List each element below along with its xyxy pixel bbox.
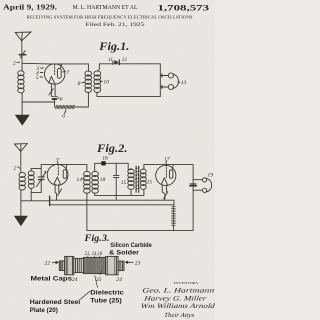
svg-text:8: 8 (78, 81, 81, 87)
headband fig2 (206, 178, 211, 192)
V1 filament (49, 77, 55, 84)
right metal cap 24 (106, 256, 119, 274)
grid tap wire (40, 164, 42, 168)
antenna wire (20, 151, 22, 172)
transformer primary coil 8 (85, 71, 92, 93)
svg-text:12: 12 (122, 57, 128, 63)
svg-text:15: 15 (121, 180, 127, 186)
variable capacitor arrow (37, 171, 47, 187)
variable capacitor plates (38, 177, 44, 180)
annotation dielectric tube (90, 275, 124, 304)
svg-text:& Solder: & Solder (109, 250, 140, 256)
V2 grid (57, 164, 59, 176)
label 13 (178, 80, 187, 86)
svg-text:Silicon Carbide: Silicon Carbide (110, 243, 152, 249)
phone lead top fig2 (193, 179, 202, 181)
svg-text:Tube (25): Tube (25) (90, 297, 122, 304)
svg-text:6: 6 (60, 96, 63, 102)
antenna A1 (15, 32, 31, 41)
triode V3 envelope (156, 165, 176, 185)
svg-text:2: 2 (14, 166, 17, 172)
label 6 battery (58, 96, 63, 102)
grid coupling coil (28, 171, 34, 189)
plate resistor (172, 206, 176, 227)
headphone circuit wire (192, 165, 194, 231)
signature line 3 (140, 303, 216, 310)
svg-text:2: 2 (13, 60, 16, 66)
wire detector loop top (97, 64, 160, 71)
transformer secondary coil 10 (94, 71, 101, 93)
V1 grid input wire (22, 62, 48, 65)
wire coil14 to B rail (86, 193, 88, 230)
svg-text:22: 22 (44, 260, 50, 266)
label 14 (76, 177, 84, 183)
svg-text:Dielectric: Dielectric (90, 290, 124, 297)
svg-text:10: 10 (103, 79, 109, 85)
wire to filament bus (21, 200, 50, 202)
wire rheostat to coil8 (76, 93, 88, 107)
svg-text:7: 7 (66, 70, 69, 76)
svg-text:11: 11 (108, 57, 113, 63)
signature line 2 (142, 295, 207, 302)
svg-text:Fig.2.: Fig.2. (96, 143, 128, 155)
V1 plate (57, 68, 61, 78)
antenna A2 (15, 144, 28, 152)
crystal rectifier 12 (114, 60, 119, 65)
V1 grid (54, 64, 56, 76)
earphone 19 top (202, 178, 206, 182)
paper texture (0, 0, 215, 320)
svg-text:23: 23 (135, 261, 141, 267)
label 1 leader (19, 51, 25, 58)
crystal detector 16 (101, 161, 105, 165)
triode V2 envelope (47, 164, 68, 185)
label 3' (55, 157, 61, 164)
svg-text:14: 14 (76, 177, 82, 183)
svg-text:Harvey G. Miller: Harvey G. Miller (142, 295, 207, 302)
V1 plate lead (49, 64, 89, 72)
svg-text:6: 6 (62, 114, 65, 120)
svg-text:18: 18 (100, 177, 106, 183)
silicon carbide core (83, 257, 105, 273)
triode V1 envelope (45, 64, 65, 84)
antenna lead-in wire (21, 41, 23, 71)
V3 plate lead (144, 165, 193, 171)
wire battery to rheostat (54, 100, 56, 107)
phone leads (160, 76, 168, 88)
phone terminal ticks (161, 74, 163, 89)
earphone 13 top (168, 73, 173, 78)
B battery rail (87, 229, 193, 231)
V2 plate lead (41, 164, 87, 171)
phone lead bottom fig2 (193, 189, 202, 191)
V2 cathode slash (58, 189, 62, 196)
earphone 13 bottom (168, 84, 173, 89)
left contact tip (59, 261, 64, 271)
svg-text:Hardened Steel: Hardened Steel (30, 299, 81, 306)
svg-text:Fig.3.: Fig.3. (83, 234, 109, 244)
label 17 (164, 156, 170, 164)
svg-text:24: 24 (72, 277, 78, 283)
svg-text:Geo. L. Hartmann: Geo. L. Hartmann (142, 288, 215, 295)
svg-text:17: 17 (164, 156, 170, 162)
label 10 (100, 79, 109, 85)
filament battery bus (50, 196, 174, 205)
svg-text:Plate (20): Plate (20) (30, 307, 58, 314)
label 6 rheostat (62, 110, 66, 120)
left metal cap 24 (65, 256, 74, 274)
svg-text:Metal Caps: Metal Caps (31, 275, 73, 282)
svg-text:19: 19 (207, 173, 213, 179)
signature line 1 (142, 288, 216, 295)
ground (15, 115, 30, 126)
headband (173, 74, 179, 89)
svg-text:RECEIVING SYSTEM FOR HIGH FREQ: RECEIVING SYSTEM FOR HIGH FREQUENCY ELEC… (27, 14, 194, 19)
wire detector to transformer (106, 163, 131, 169)
V3 plate (169, 170, 173, 178)
cathode slash mark (49, 89, 53, 95)
svg-text:16: 16 (102, 156, 108, 162)
AF transformer core (136, 166, 140, 192)
V1 filament legs (51, 84, 55, 96)
labels 21 24 18 (85, 252, 103, 258)
svg-text:24: 24 (116, 277, 122, 283)
label 2' (14, 166, 20, 172)
RF coil 14 (84, 171, 91, 193)
filament rheostat (55, 105, 76, 109)
tuned loop wiring (31, 168, 41, 200)
svg-text:INVENTORS: INVENTORS (174, 281, 198, 285)
signature line 4 (164, 312, 196, 319)
svg-text:13: 13 (181, 80, 187, 86)
svg-text:Fig.1.: Fig.1. (98, 41, 129, 53)
svg-text:5: 5 (36, 75, 39, 81)
wire coil to ground (20, 190, 22, 216)
label 7 (63, 70, 70, 76)
label 3 (35, 66, 43, 72)
terminal tick 11 (112, 61, 114, 64)
V3 filament legs (162, 185, 166, 200)
tuning coil 2 (18, 71, 24, 93)
svg-text:25: 25 (96, 277, 102, 283)
wire phones branch (159, 64, 161, 97)
V3 filament (161, 178, 167, 185)
wire coil18 top (95, 163, 102, 171)
V3 grid (165, 165, 167, 178)
V2 plate (63, 170, 66, 179)
antenna coil 2' (19, 172, 25, 190)
annotation hardened steel plate (30, 291, 90, 314)
bypass capacitor (190, 184, 196, 186)
RF coil 18 (92, 171, 99, 193)
svg-text:1,708,573: 1,708,573 (158, 3, 210, 13)
label 25 (96, 271, 102, 283)
wire transformer top connections (131, 165, 144, 170)
label 23 with arrow (125, 261, 141, 267)
wire coil2 to ground (21, 93, 23, 115)
svg-text:Filed Feb. 21, 1925: Filed Feb. 21, 1925 (86, 23, 146, 28)
right contact tip (118, 261, 124, 271)
svg-text:April 9, 1929.: April 9, 1929. (3, 2, 57, 11)
label 4 (36, 70, 43, 76)
earphone 19 bottom (202, 188, 206, 192)
AF transformer secondary 15 (140, 169, 146, 189)
battery 6 (51, 97, 57, 99)
svg-text:Wm Williams Arnold: Wm Williams Arnold (140, 303, 215, 310)
label 22 with arrow (44, 260, 59, 266)
svg-text:M. L. HARTMANN ET AL: M. L. HARTMANN ET AL (73, 5, 138, 11)
wire detector loop bottom (97, 93, 160, 97)
AF transformer primary 15 (128, 169, 134, 189)
label 2 (13, 60, 20, 66)
wire resistor to rail (173, 226, 175, 230)
loop bottom wire (95, 189, 144, 200)
svg-text:15: 15 (147, 180, 153, 186)
shunt capacitor branch (113, 163, 119, 195)
washer section (74, 258, 84, 272)
V3 cathode slash (164, 192, 168, 199)
V2 filament (54, 177, 61, 184)
ground fig2 (14, 216, 28, 227)
wire fig1 bottom return (22, 101, 55, 103)
V2 filament legs (55, 184, 59, 200)
svg-text:Their Attys: Their Attys (164, 312, 196, 319)
label 8 (78, 81, 85, 87)
label 5 (36, 75, 43, 81)
